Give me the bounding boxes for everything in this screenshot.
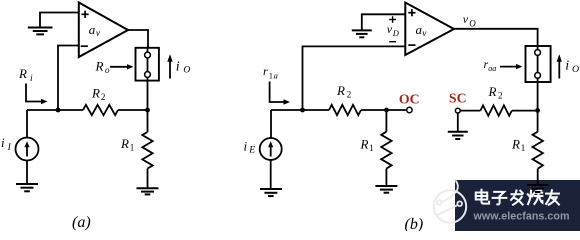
svg-text:(a): (a)	[72, 214, 91, 231]
svg-text:a: a	[492, 64, 496, 73]
svg-text:(b): (b)	[405, 216, 424, 231]
svg-text:1: 1	[130, 143, 135, 153]
svg-text:R: R	[511, 137, 520, 152]
svg-text:R: R	[91, 86, 100, 101]
svg-text:i: i	[1, 135, 5, 150]
svg-text:O: O	[469, 18, 476, 28]
svg-text:i: i	[244, 139, 248, 154]
svg-text:R: R	[18, 66, 27, 81]
svg-text:1: 1	[269, 71, 273, 81]
svg-text:R: R	[360, 137, 369, 152]
svg-text:D: D	[392, 28, 400, 38]
svg-text:OC: OC	[399, 91, 420, 106]
svg-text:2: 2	[101, 92, 106, 102]
svg-text:1: 1	[369, 143, 374, 153]
svg-text:R: R	[336, 83, 345, 98]
svg-text:o: o	[105, 65, 110, 75]
svg-text:E: E	[248, 146, 255, 156]
svg-text:R: R	[120, 136, 129, 151]
svg-text:1: 1	[521, 143, 526, 153]
svg-text:2: 2	[347, 90, 352, 100]
svg-text:i: i	[30, 74, 33, 84]
svg-text:v: v	[463, 12, 469, 26]
svg-text:v: v	[96, 28, 100, 38]
svg-text:a: a	[89, 22, 96, 37]
svg-text:2: 2	[498, 90, 503, 100]
svg-text:i: i	[565, 58, 569, 73]
svg-text:O: O	[572, 64, 579, 75]
svg-text:R: R	[488, 84, 497, 99]
svg-text:r: r	[263, 64, 268, 78]
svg-text:www.elecfans.com: www.elecfans.com	[473, 210, 570, 222]
svg-text:O: O	[183, 66, 190, 76]
svg-text:a: a	[274, 71, 278, 81]
svg-text:SC: SC	[449, 91, 467, 106]
svg-text:v: v	[422, 28, 426, 38]
svg-text:R: R	[95, 59, 104, 74]
svg-text:i: i	[176, 59, 180, 74]
